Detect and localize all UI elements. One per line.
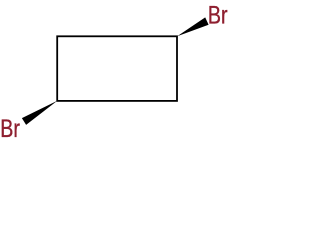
wedge bond to Br (bottom left) xyxy=(22,101,57,125)
cyclobutane ring xyxy=(57,36,177,101)
svg-text:Br: Br xyxy=(0,115,20,143)
svg-text:Br: Br xyxy=(208,2,228,30)
wedge bond to Br (top right) xyxy=(177,17,208,36)
